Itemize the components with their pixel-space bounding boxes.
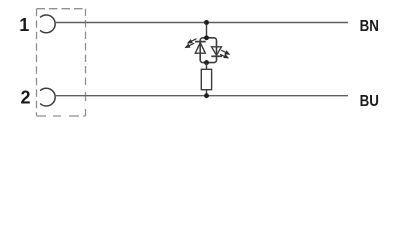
junction dot top of loop [204,35,209,40]
wire: resistor to BU [206,90,208,96]
pin 2 contact [40,88,55,106]
parallel loop wiring [200,38,216,63]
LED V2 emission arrows (pointing down-right) [220,50,229,58]
svg-text:BN: BN [360,18,379,35]
connector outline (dashed box) [37,9,86,116]
junction dot on BU wire [204,93,209,98]
svg-text:1: 1 [19,15,29,35]
svg-text:2: 2 [20,87,30,107]
LED V1 (left diode, cathode up) [195,42,206,54]
wire BU (bottom) [55,95,348,97]
svg-text:BU: BU [360,93,379,110]
LED V2 (right diode, cathode down) [211,47,222,57]
junction dot on BN wire [204,20,209,25]
wire: loop bottom to resistor [206,63,208,70]
LED V1 emission arrows (pointing down-left) [186,39,197,48]
resistor R1 [201,69,211,89]
wire BN (top) [55,22,348,24]
wire: branch from BN down [206,23,208,38]
junction dot bottom of loop [204,60,209,65]
pin 1 contact [40,15,55,33]
